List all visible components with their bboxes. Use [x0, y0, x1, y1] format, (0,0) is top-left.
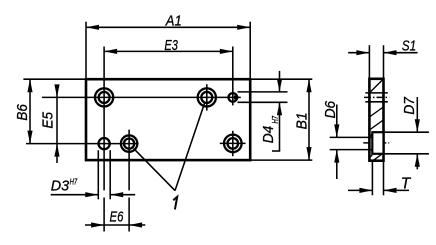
svg-text:E5: E5	[39, 111, 56, 128]
svg-text:H7: H7	[270, 116, 280, 124]
svg-text:D3: D3	[51, 177, 70, 194]
svg-text:D7: D7	[401, 97, 418, 115]
svg-text:H7: H7	[70, 177, 78, 187]
svg-text:T: T	[401, 175, 412, 192]
svg-text:D4: D4	[260, 126, 277, 144]
svg-text:S1: S1	[402, 38, 416, 55]
svg-text:B6: B6	[14, 104, 31, 121]
svg-text:E3: E3	[164, 37, 178, 54]
svg-text:B1: B1	[294, 112, 311, 129]
svg-text:A1: A1	[165, 12, 182, 29]
svg-text:D6: D6	[322, 100, 339, 118]
svg-text:E6: E6	[110, 209, 124, 226]
